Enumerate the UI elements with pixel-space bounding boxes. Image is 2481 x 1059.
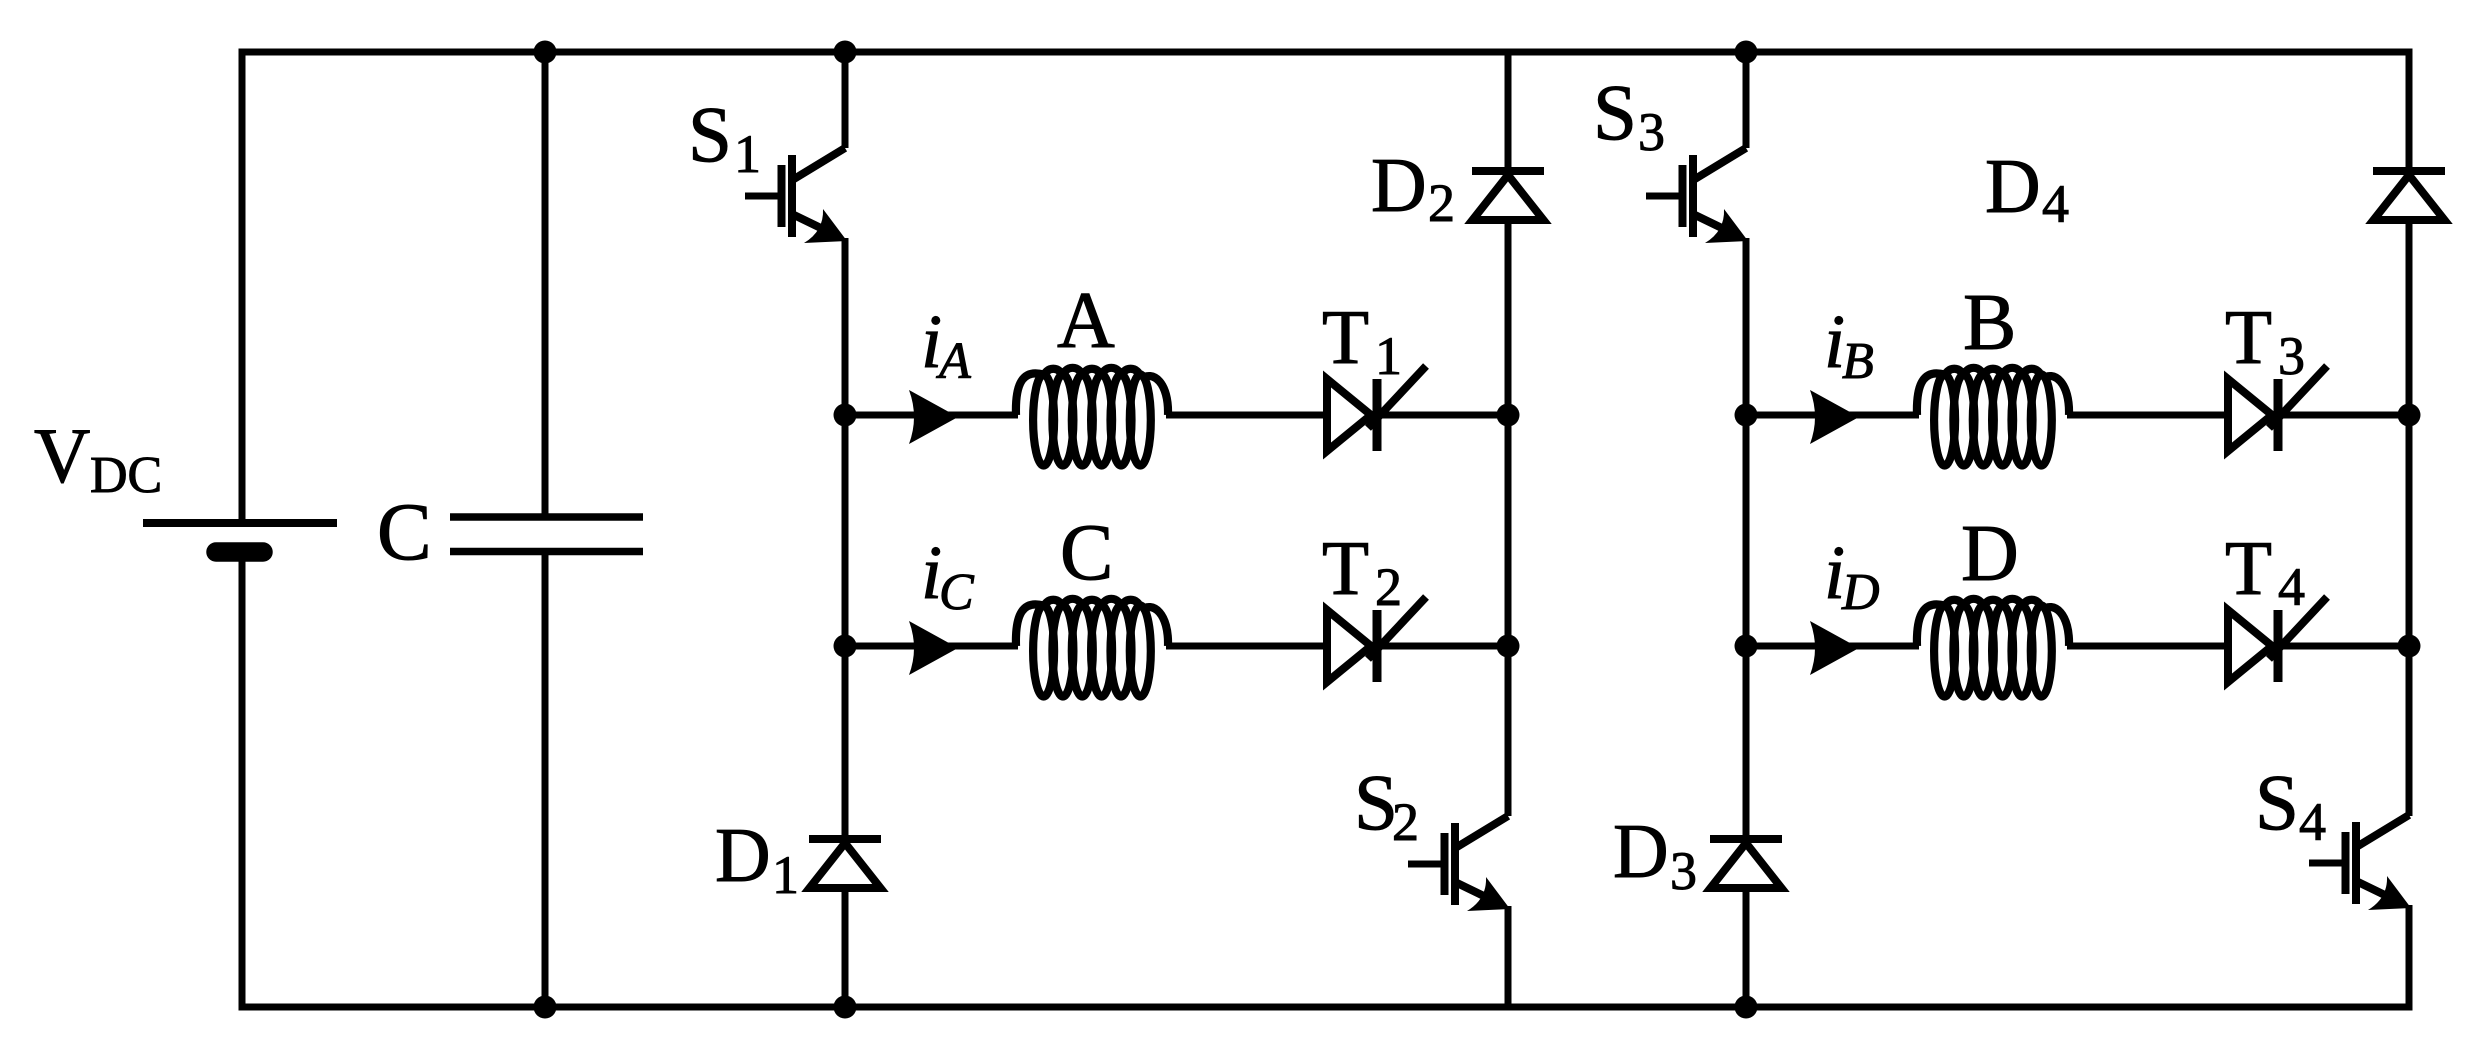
wire phase C right segment bbox=[1382, 643, 1508, 650]
junction leg3 phase D node bbox=[1735, 635, 1758, 658]
current arrow iB bbox=[1810, 390, 1859, 444]
transistor S1 (IGBT) bbox=[745, 148, 847, 243]
wire leg3 lower segment bbox=[1743, 888, 1750, 1007]
diode D2 bbox=[1472, 171, 1544, 220]
svg-text:1: 1 bbox=[772, 845, 799, 905]
wire phase D left segment bbox=[1746, 643, 1919, 650]
wire leg1 lower segment bbox=[842, 888, 849, 1007]
svg-text:A: A bbox=[1057, 277, 1115, 365]
svg-text:T: T bbox=[1322, 294, 1369, 380]
svg-text:D: D bbox=[1961, 510, 2019, 598]
svg-text:4: 4 bbox=[2299, 792, 2326, 852]
wire leg4 mid segment bbox=[2406, 220, 2413, 816]
label iC bbox=[921, 531, 975, 621]
junction leg4 phase B node bbox=[2398, 404, 2421, 427]
label C capacitor bbox=[377, 486, 432, 577]
wire top DC bus rail bbox=[239, 49, 2413, 56]
junction leg3 top rail bbox=[1735, 41, 1758, 64]
wire phase A left segment bbox=[845, 412, 1018, 419]
inductor winding C bbox=[1016, 599, 1168, 697]
junction capacitor top bbox=[534, 41, 557, 64]
label iB bbox=[1824, 300, 1874, 390]
current arrow iD bbox=[1810, 621, 1859, 675]
svg-text:T: T bbox=[1322, 525, 1369, 611]
wire phase C left segment bbox=[845, 643, 1018, 650]
wire leg3 mid segment bbox=[1743, 238, 1750, 839]
wire battery branch lower segment bbox=[239, 552, 246, 1011]
wire S3 collector from top rail bbox=[1743, 52, 1750, 148]
label winding B bbox=[1963, 279, 2016, 367]
thyristor T1 bbox=[1327, 366, 1426, 451]
transistor S2 (IGBT) bbox=[1408, 816, 1510, 911]
battery VDC negative plate bbox=[216, 542, 263, 562]
label S4 bbox=[2255, 760, 2326, 852]
svg-text:4: 4 bbox=[2278, 557, 2305, 617]
svg-text:D: D bbox=[1841, 564, 1880, 621]
svg-text:2: 2 bbox=[1428, 173, 1455, 233]
junction leg3 phase B node bbox=[1735, 404, 1758, 427]
diode D4 bbox=[2373, 171, 2445, 220]
thyristor T3 bbox=[2228, 366, 2327, 451]
inductor winding A bbox=[1016, 368, 1168, 466]
svg-text:4: 4 bbox=[2042, 174, 2069, 234]
label VDC bbox=[34, 412, 162, 504]
capacitor C top plate bbox=[450, 513, 643, 521]
transistor S3 (IGBT) bbox=[1646, 148, 1748, 243]
diode D3 bbox=[1710, 839, 1782, 888]
battery VDC positive plate bbox=[143, 519, 337, 527]
wire phase D right segment bbox=[2283, 643, 2409, 650]
junction leg4 phase D node bbox=[2398, 635, 2421, 658]
wire D4 cathode from top rail bbox=[2406, 49, 2413, 172]
junction leg2 phase C node bbox=[1497, 635, 1520, 658]
label iD bbox=[1824, 531, 1880, 621]
label D3 bbox=[1613, 808, 1697, 901]
label winding A bbox=[1057, 277, 1115, 365]
wire S1 collector from top rail bbox=[842, 52, 849, 148]
label winding D bbox=[1961, 510, 2019, 598]
wire battery branch upper segment bbox=[239, 49, 246, 524]
svg-text:S: S bbox=[688, 92, 732, 179]
label S2 bbox=[1354, 760, 1419, 852]
wire phase B left segment bbox=[1746, 412, 1919, 419]
svg-text:C: C bbox=[1060, 509, 1113, 597]
label T2 bbox=[1322, 525, 1402, 617]
diode D1 bbox=[809, 839, 881, 888]
wire bottom DC bus rail bbox=[239, 1004, 2413, 1011]
wire phase D middle segment bbox=[2067, 643, 2230, 650]
label D4 bbox=[1985, 143, 2069, 234]
svg-text:S: S bbox=[1593, 70, 1637, 157]
label iA bbox=[921, 300, 971, 390]
svg-text:B: B bbox=[1963, 279, 2016, 367]
wire phase C middle segment bbox=[1166, 643, 1329, 650]
thyristor T4 bbox=[2228, 597, 2327, 682]
svg-text:A: A bbox=[936, 333, 971, 390]
label S1 bbox=[688, 92, 761, 184]
svg-text:1: 1 bbox=[1375, 326, 1402, 386]
svg-text:T: T bbox=[2225, 294, 2272, 380]
svg-text:D: D bbox=[1371, 142, 1427, 228]
junction leg2 phase A node bbox=[1497, 404, 1520, 427]
junction leg3 bottom rail bbox=[1735, 996, 1758, 1019]
junction leg1 phase A node bbox=[834, 404, 857, 427]
wire capacitor branch upper segment bbox=[542, 52, 549, 517]
wire phase A right segment bbox=[1382, 412, 1508, 419]
junction leg1 top rail bbox=[834, 41, 857, 64]
wire S2 emitter to bottom rail bbox=[1505, 906, 1512, 1007]
svg-text:3: 3 bbox=[2278, 326, 2305, 386]
svg-text:3: 3 bbox=[1638, 102, 1665, 162]
label T1 bbox=[1322, 294, 1402, 386]
current arrow iC bbox=[909, 621, 958, 675]
label T4 bbox=[2225, 525, 2305, 617]
svg-text:D: D bbox=[1985, 143, 2041, 229]
wire capacitor branch lower segment bbox=[542, 552, 549, 1008]
junction capacitor bottom bbox=[534, 996, 557, 1019]
label T3 bbox=[2225, 294, 2305, 386]
svg-text:2: 2 bbox=[1392, 792, 1419, 852]
svg-text:S: S bbox=[2255, 760, 2299, 847]
svg-text:T: T bbox=[2225, 525, 2272, 611]
inductor winding B bbox=[1917, 368, 2069, 466]
svg-text:C: C bbox=[939, 564, 975, 621]
inductor winding D bbox=[1917, 599, 2069, 697]
wire phase B right segment bbox=[2283, 412, 2409, 419]
current arrow iA bbox=[909, 390, 958, 444]
transistor S4 (IGBT) bbox=[2309, 815, 2411, 910]
svg-text:V: V bbox=[34, 412, 90, 499]
junction leg1 phase C node bbox=[834, 635, 857, 658]
svg-text:2: 2 bbox=[1375, 557, 1402, 617]
svg-text:DC: DC bbox=[90, 447, 162, 504]
svg-text:C: C bbox=[377, 486, 432, 577]
svg-text:1: 1 bbox=[734, 124, 761, 184]
wire S4 emitter to bottom rail bbox=[2406, 905, 2413, 1011]
svg-text:D: D bbox=[1613, 808, 1669, 894]
junction leg1 bottom rail bbox=[834, 996, 857, 1019]
svg-text:3: 3 bbox=[1670, 841, 1697, 901]
thyristor T2 bbox=[1327, 597, 1426, 682]
wire leg1 mid segment bbox=[842, 238, 849, 839]
svg-text:B: B bbox=[1842, 333, 1874, 390]
wire leg2 mid segment bbox=[1505, 220, 1512, 816]
label D2 bbox=[1371, 142, 1455, 233]
capacitor C bottom plate bbox=[450, 548, 643, 556]
label winding C bbox=[1060, 509, 1113, 597]
svg-text:D: D bbox=[715, 812, 771, 898]
wire D2 cathode from top rail bbox=[1505, 52, 1512, 171]
label S3 bbox=[1593, 70, 1665, 162]
wire phase A middle segment bbox=[1166, 412, 1329, 419]
wire phase B middle segment bbox=[2067, 412, 2230, 419]
label D1 bbox=[715, 812, 799, 905]
